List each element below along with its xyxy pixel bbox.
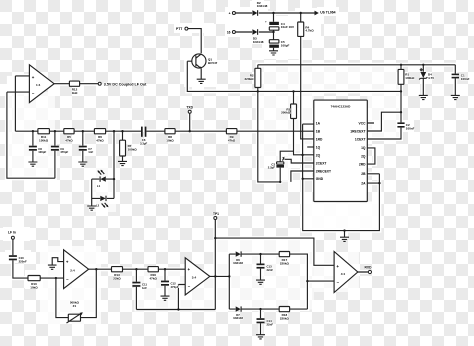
- zener D4: [419, 68, 434, 80]
- terminal LF out: [98, 82, 147, 86]
- svg-text:74AHC123AD: 74AHC123AD: [331, 105, 352, 109]
- svg-text:VCC: VCC: [359, 121, 367, 125]
- resistor R1: [398, 69, 415, 84]
- capacitor C7: [79, 146, 94, 155]
- capacitor C1: [452, 74, 470, 81]
- svg-text:1RD: 1RD: [316, 137, 323, 141]
- capacitor C4: [265, 20, 294, 31]
- white pocket: below IC (U loop): [303, 202, 380, 231]
- ground (D4): [419, 95, 428, 99]
- terminal TXD: [186, 106, 193, 114]
- svg-text:10kΩ: 10kΩ: [30, 286, 38, 290]
- capacitor C10: [9, 255, 27, 263]
- op-amp U1c: [185, 258, 210, 295]
- white pocket: PTT / Q1: [174, 23, 214, 33]
- white pocket: demodulator / op-amp4: [215, 238, 314, 309]
- svg-text:47kΩ: 47kΩ: [228, 139, 236, 143]
- resistor R10: [28, 276, 40, 290]
- svg-text:TXD: TXD: [186, 106, 193, 110]
- svg-text:1N4148: 1N4148: [257, 4, 268, 8]
- trimmer Z1: [67, 300, 83, 323]
- svg-text:150kΩ: 150kΩ: [39, 139, 49, 143]
- resistor R12: [69, 81, 79, 95]
- svg-text:16: 16: [227, 31, 231, 35]
- svg-text:4:4: 4:4: [341, 272, 346, 276]
- svg-text:100nF: 100nF: [461, 77, 470, 81]
- resistor R9: [226, 129, 237, 143]
- svg-text:3.5V DC Coupled LF Out: 3.5V DC Coupled LF Out: [104, 82, 147, 86]
- svg-text:2RECEXT: 2RECEXT: [316, 169, 331, 173]
- ground (C8): [28, 162, 37, 166]
- svg-text:100kΩ: 100kΩ: [405, 76, 415, 80]
- resistor R17: [279, 252, 289, 266]
- svg-text:TP1: TP1: [213, 212, 219, 216]
- ground (C5): [269, 51, 278, 55]
- op-amp U1a: [29, 65, 54, 103]
- resistor R7: [120, 140, 138, 156]
- svg-text:3.3µF: 3.3µF: [140, 141, 147, 145]
- svg-text:1RECEXT: 1RECEXT: [350, 129, 365, 133]
- ground (op-amp U1b +): [48, 265, 57, 269]
- svg-text:RXD: RXD: [365, 265, 373, 269]
- capacitor C9: [51, 146, 69, 155]
- svg-text:470pF: 470pF: [60, 150, 68, 154]
- svg-text:22nF: 22nF: [267, 323, 274, 327]
- svg-text:220kΩ: 220kΩ: [245, 77, 255, 81]
- svg-text:200kΩ: 200kΩ: [281, 111, 291, 115]
- resistor R11: [38, 129, 50, 143]
- svg-text:100nF: 100nF: [406, 126, 415, 130]
- svg-text:GND: GND: [316, 177, 324, 181]
- transistor Q1: [192, 54, 218, 69]
- supply arrow to U6: [315, 10, 336, 15]
- svg-text:1nF: 1nF: [88, 150, 93, 154]
- svg-text:1B: 1B: [316, 129, 321, 133]
- svg-text:2B: 2B: [361, 172, 366, 176]
- ground (LED): [87, 206, 96, 210]
- ground (C1): [451, 95, 460, 99]
- svg-text:2Q: 2Q: [361, 155, 366, 159]
- svg-text:100µF: 100µF: [281, 43, 290, 47]
- svg-text:220nF: 220nF: [19, 260, 27, 264]
- svg-text:1CEXT: 1CEXT: [355, 137, 366, 141]
- svg-text:+: +: [229, 12, 231, 16]
- capacitor C12: [161, 281, 179, 289]
- terminal 16: [227, 31, 236, 35]
- diode D7: [233, 306, 243, 320]
- svg-text:2.2µF: 2.2µF: [268, 166, 275, 170]
- svg-text:3:4: 3:4: [192, 276, 197, 280]
- svg-text:4.7V: 4.7V: [428, 76, 434, 80]
- svg-text:+: +: [188, 267, 191, 272]
- ground (C13): [256, 280, 265, 284]
- resistor R6: [94, 129, 105, 143]
- svg-text:220kΩ: 220kΩ: [280, 317, 290, 321]
- svg-text:+: +: [66, 260, 69, 265]
- svg-text:L1: L1: [97, 184, 101, 188]
- svg-text:PTT: PTT: [176, 27, 182, 31]
- svg-text:47kΩ: 47kΩ: [149, 277, 157, 281]
- diode D3: [252, 29, 263, 44]
- svg-text:100kΩ: 100kΩ: [128, 148, 138, 152]
- capacitor C6 (series): [140, 127, 147, 146]
- svg-text:2CEXT: 2CEXT: [316, 161, 327, 165]
- svg-text:2A: 2A: [361, 181, 366, 185]
- capacitor C3: [268, 157, 285, 170]
- resistor R3: [281, 104, 296, 119]
- svg-text:Z1: Z1: [73, 304, 77, 308]
- svg-text:+: +: [265, 20, 267, 24]
- ground (C12): [161, 296, 170, 300]
- svg-text:1N4148: 1N4148: [253, 40, 264, 44]
- resistor R16: [148, 267, 158, 281]
- white pocket: right of IC: [367, 91, 401, 139]
- ground (IC): [340, 237, 349, 241]
- capacitor C13: [257, 264, 274, 272]
- svg-text:Ub TL064: Ub TL064: [320, 10, 335, 14]
- svg-text:470pF: 470pF: [171, 285, 179, 289]
- ground (Q1): [197, 79, 206, 83]
- svg-text:22kΩ: 22kΩ: [113, 277, 121, 281]
- svg-text:47kΩ: 47kΩ: [96, 139, 104, 143]
- svg-text:+: +: [336, 264, 339, 269]
- white pocket: top power cluster: [225, 7, 268, 37]
- resistor R2: [245, 68, 261, 87]
- IC U2 74AHC123AD: [307, 100, 367, 201]
- svg-text:10nF 16V: 10nF 16V: [281, 25, 294, 29]
- op-amp U1b: [64, 250, 89, 289]
- capacitor C11: [132, 282, 147, 290]
- resistor R4: [298, 22, 315, 36]
- svg-text:1kΩ: 1kΩ: [72, 91, 78, 95]
- diode D2: [252, 1, 267, 16]
- LED L1: [97, 170, 106, 188]
- ground (C14): [256, 335, 265, 339]
- diode D6: [233, 251, 243, 265]
- svg-text:220kΩ: 220kΩ: [280, 262, 290, 266]
- svg-text:L2: L2: [96, 204, 100, 208]
- op-amp U1d: [334, 252, 358, 293]
- terminal TP1: [213, 212, 219, 220]
- svg-text:1nF: 1nF: [142, 286, 147, 290]
- terminal RXD: [365, 265, 373, 273]
- svg-text:+: +: [32, 75, 35, 80]
- svg-text:10kΩ: 10kΩ: [166, 139, 174, 143]
- white pocket: op-amp3 loop: [136, 269, 215, 309]
- svg-text:1Q: 1Q: [316, 145, 321, 149]
- svg-text:BC547: BC547: [208, 61, 218, 65]
- terminal LF in: [8, 230, 16, 239]
- capacitor C2: [397, 122, 414, 130]
- white pocket: R2/R3 columns down to C3: [258, 91, 314, 151]
- white pocket: op-amp1 feedback loop: [7, 76, 30, 92]
- capacitor C14: [257, 318, 274, 326]
- svg-text:2Q: 2Q: [316, 153, 321, 157]
- white pocket: between supply rails: [258, 65, 401, 92]
- ground (C7): [78, 162, 87, 166]
- svg-text:LF In: LF In: [8, 230, 16, 234]
- resistor R13: [112, 267, 123, 281]
- ground (R7): [118, 161, 127, 165]
- svg-text:4.7kΩ: 4.7kΩ: [305, 29, 314, 33]
- svg-text:100pF: 100pF: [38, 150, 46, 154]
- svg-text:1:4: 1:4: [36, 83, 41, 87]
- svg-text:1Q: 1Q: [361, 146, 366, 150]
- svg-text:2RD: 2RD: [359, 162, 366, 166]
- svg-text:1A: 1A: [316, 121, 321, 125]
- terminal PTT: [176, 27, 188, 31]
- white pocket: lower-left input: [3, 227, 30, 241]
- svg-text:2:4: 2:4: [70, 269, 75, 273]
- resistor R5: [64, 129, 74, 143]
- white pocket: LED block: [89, 168, 116, 212]
- LED L2: [96, 196, 108, 208]
- svg-text:47kΩ: 47kΩ: [65, 139, 73, 143]
- capacitor C5: [269, 40, 289, 48]
- svg-text:1N4148: 1N4148: [233, 261, 243, 265]
- resistor R8: [165, 129, 175, 143]
- capacitor C8: [29, 146, 47, 155]
- svg-text:1N4148: 1N4148: [233, 316, 243, 320]
- terminal + (supply): [229, 12, 236, 16]
- resistor R18: [279, 307, 289, 321]
- svg-text:22nF: 22nF: [267, 268, 274, 272]
